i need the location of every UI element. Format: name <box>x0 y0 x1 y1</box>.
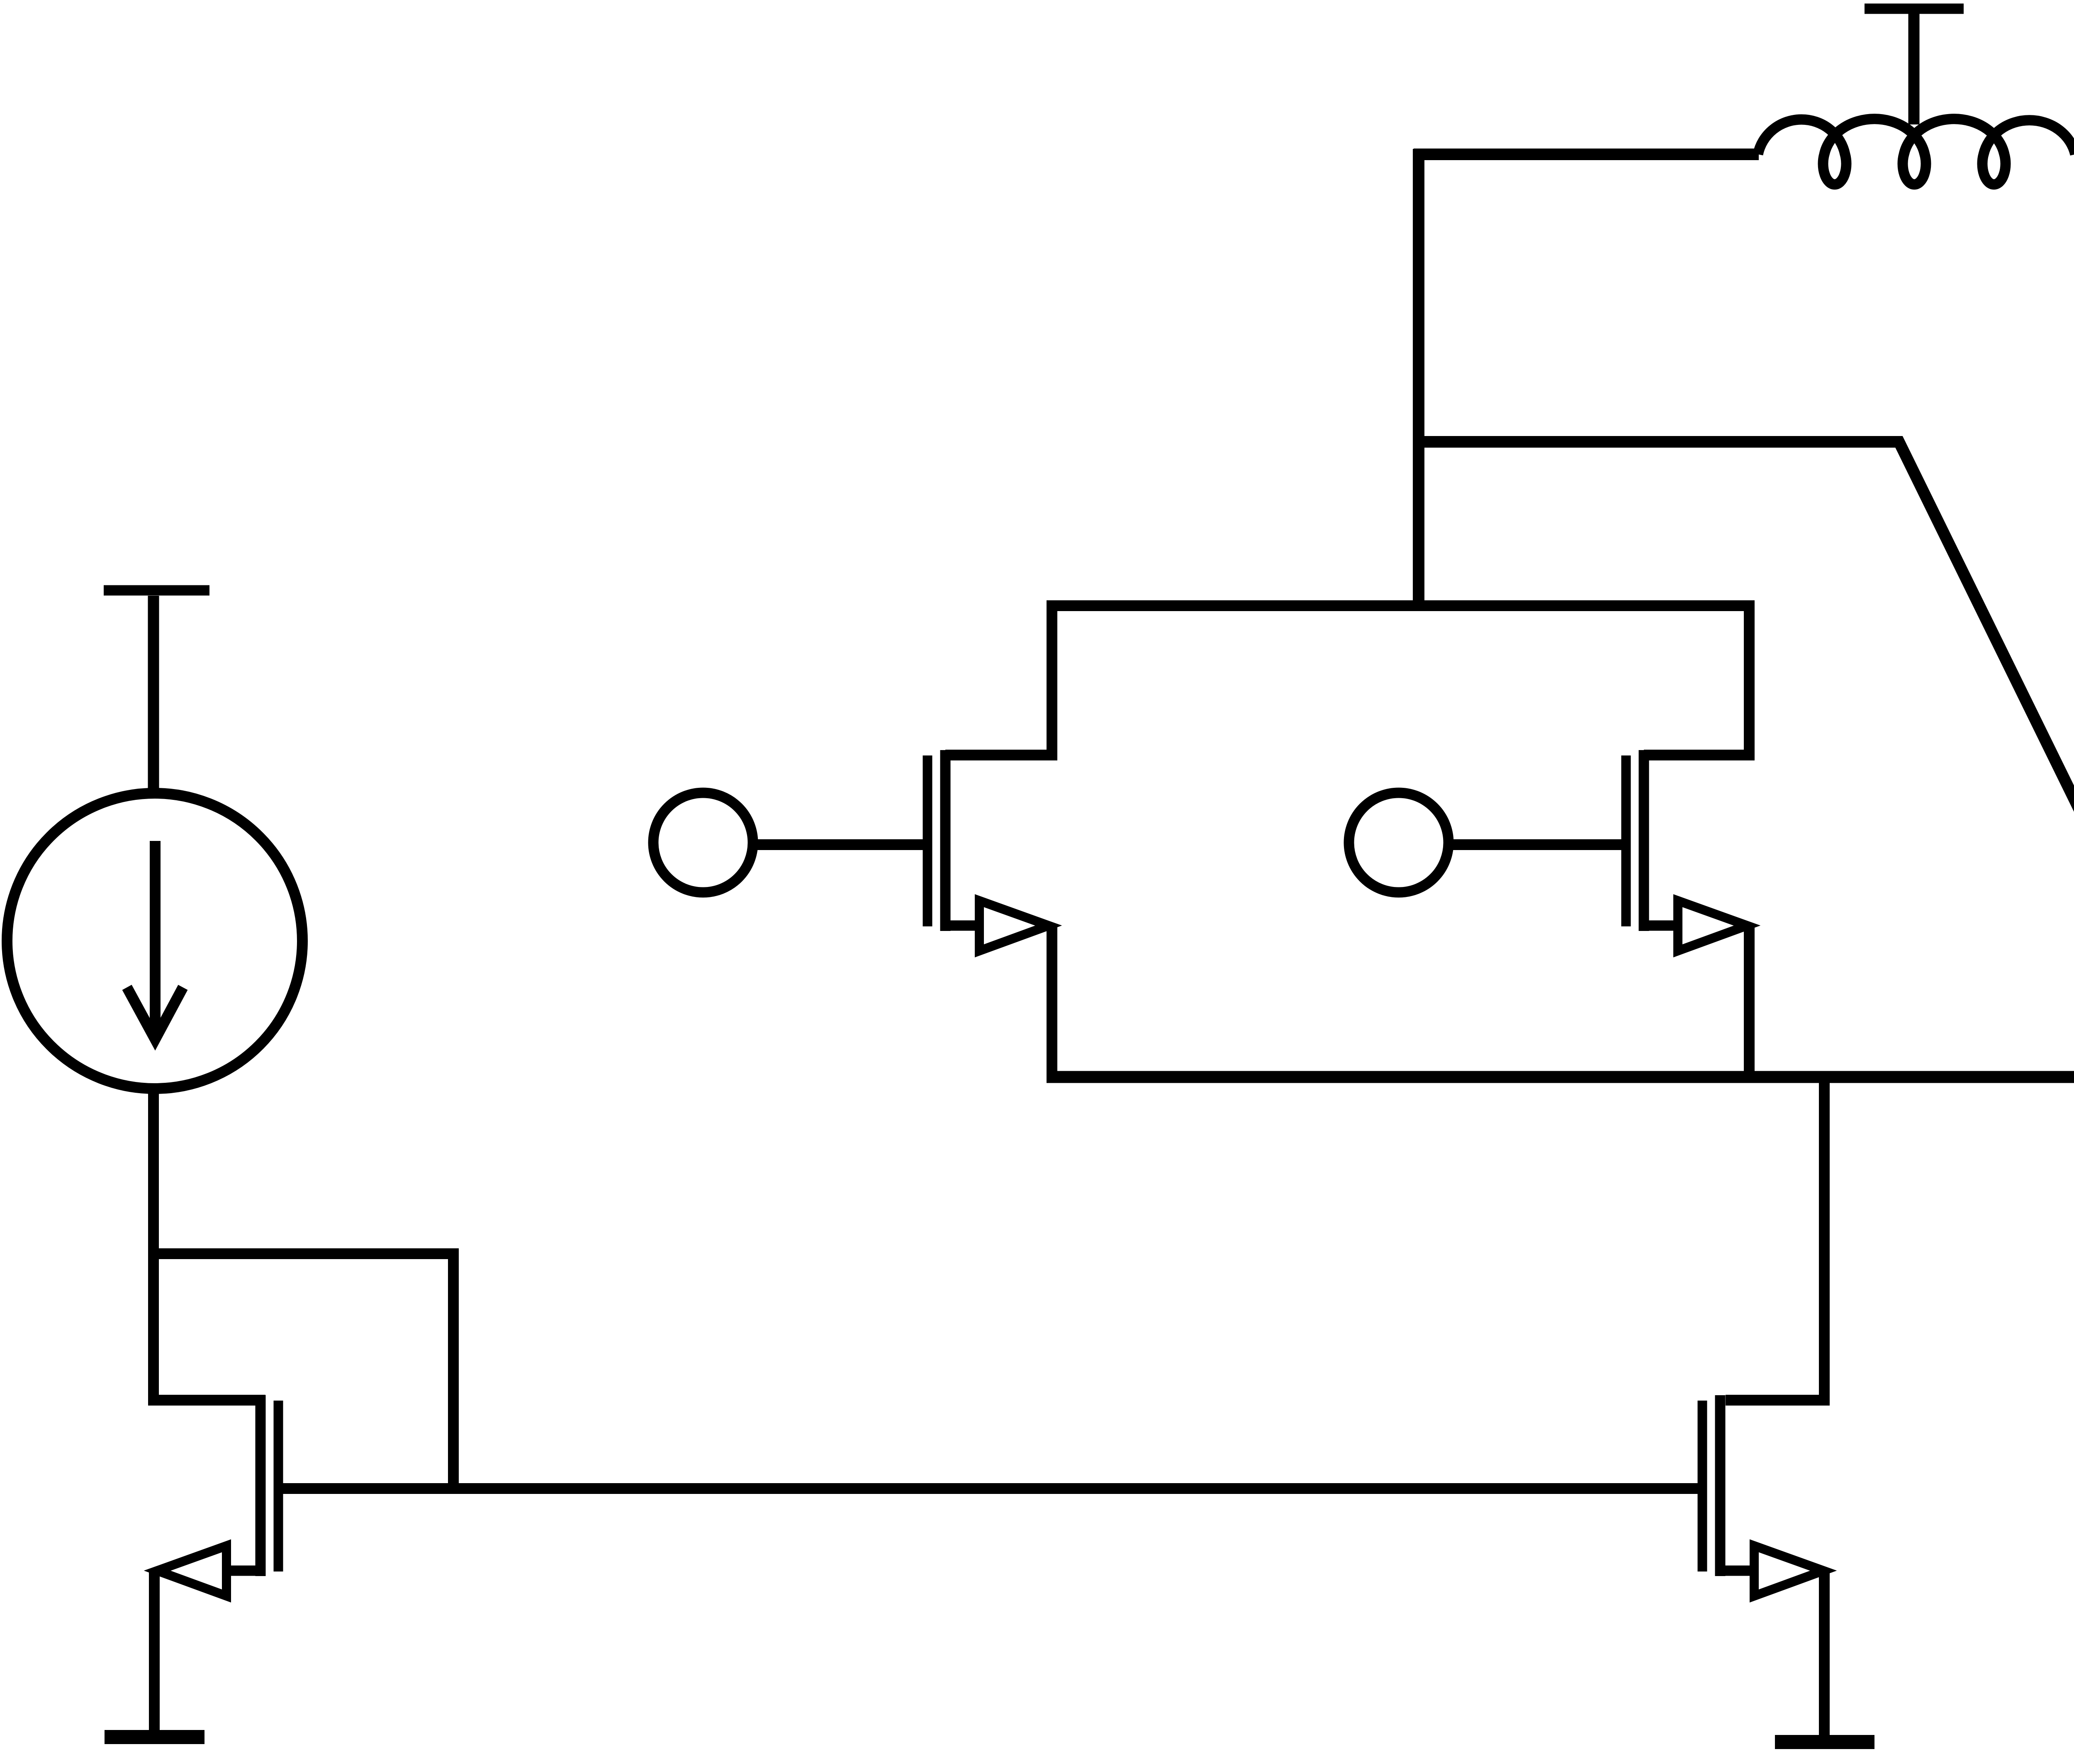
transistor M2 (right switching NMOS) <box>1626 606 1749 951</box>
wire: cross-coupling from left tank node to M5 gate <box>1419 442 2074 841</box>
current source I1 <box>7 793 302 1089</box>
transistor M4 (NMOS mirror output) <box>1702 1395 1823 1596</box>
wire: P1 to M1 gate <box>753 839 925 850</box>
transistor M3 (mirrored NMOS, diode-connected mirror reference) <box>157 1395 278 1596</box>
wire: bottom rail (sources of M1,M2,M5 to M4 drain) <box>1047 1071 2074 1083</box>
wire: P2 to M2 gate <box>1449 839 1624 850</box>
input port P2 (right input circle) <box>1349 793 1448 892</box>
wire: M2 source down to bottom rail <box>1744 926 1755 1082</box>
wire: M1 source down to bottom rail <box>1047 926 1057 1077</box>
input port P1 (left input circle) <box>653 793 753 892</box>
wire: mirror gate bus M3-M4 <box>278 1483 1702 1494</box>
wire: current source output to node A, over to diode-gate tap <box>153 1089 453 1489</box>
wire: M4 drain vertical from output rail <box>1726 1077 1824 1400</box>
ground symbol (M4 source) <box>1775 1735 1874 1749</box>
supply symbol VDD1 (above current source) <box>104 590 209 795</box>
transistor M1 (left switching NMOS) <box>927 606 1052 951</box>
wire: M3 source down to ground <box>149 1571 160 1735</box>
wire: node A down and right to M3 drain <box>153 1249 265 1400</box>
supply symbol VDD2 (tank center tap) <box>1865 9 1964 124</box>
wire: tank left vertical (inductor left end down to drain bus) <box>1413 149 1424 611</box>
wire: M4 source down to ground <box>1819 1571 1830 1740</box>
wire: inductor left horizontal <box>1414 149 1759 160</box>
inductor L1 (center-tapped tank coil) <box>1758 119 2074 185</box>
ground symbol (M3 source) <box>105 1730 204 1744</box>
wire: drain bus (top line joining M1 and M2 drains) <box>1047 600 1755 611</box>
